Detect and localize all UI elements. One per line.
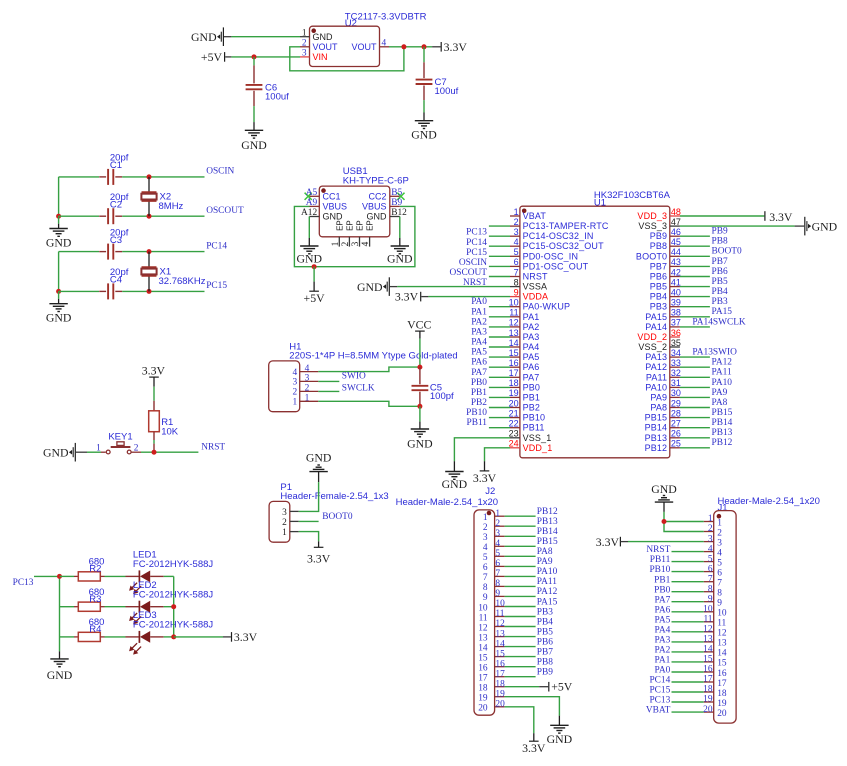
svg-text:PB10: PB10 bbox=[466, 408, 487, 418]
svg-text:34: 34 bbox=[671, 348, 681, 358]
svg-text:PD0-OSC_IN: PD0-OSC_IN bbox=[523, 251, 579, 261]
svg-text:PB13: PB13 bbox=[645, 433, 668, 443]
svg-text:17: 17 bbox=[717, 679, 727, 689]
svg-text:PA5: PA5 bbox=[523, 352, 540, 362]
svg-text:EP: EP bbox=[345, 220, 354, 231]
svg-text:11: 11 bbox=[479, 613, 488, 623]
svg-text:VBAT: VBAT bbox=[523, 211, 547, 221]
svg-text:PB1: PB1 bbox=[523, 392, 540, 402]
svg-text:7: 7 bbox=[514, 267, 519, 277]
svg-text:6: 6 bbox=[483, 563, 488, 573]
svg-text:3: 3 bbox=[717, 538, 722, 548]
svg-text:PA0-WKUP: PA0-WKUP bbox=[523, 302, 571, 312]
svg-text:26: 26 bbox=[671, 429, 681, 439]
svg-text:PB5: PB5 bbox=[712, 277, 728, 287]
svg-text:8MHz: 8MHz bbox=[159, 201, 184, 212]
svg-text:2: 2 bbox=[514, 217, 519, 227]
svg-text:1: 1 bbox=[305, 394, 310, 404]
svg-text:8: 8 bbox=[717, 589, 722, 599]
svg-text:EP: EP bbox=[335, 220, 344, 231]
svg-text:PB4: PB4 bbox=[650, 292, 667, 302]
svg-text:8: 8 bbox=[495, 579, 500, 589]
svg-text:12: 12 bbox=[509, 318, 519, 328]
svg-text:10: 10 bbox=[478, 603, 488, 613]
svg-text:20: 20 bbox=[703, 705, 713, 715]
svg-text:PC14: PC14 bbox=[206, 241, 227, 251]
svg-text:GND: GND bbox=[306, 451, 332, 465]
svg-text:3: 3 bbox=[302, 49, 307, 59]
svg-text:PA7: PA7 bbox=[471, 368, 487, 378]
svg-text:PA12: PA12 bbox=[645, 362, 667, 372]
svg-text:PA2: PA2 bbox=[523, 322, 540, 332]
svg-text:18: 18 bbox=[495, 679, 505, 689]
svg-text:6: 6 bbox=[717, 568, 722, 578]
svg-text:R4: R4 bbox=[89, 624, 101, 635]
svg-text:PB9: PB9 bbox=[712, 227, 728, 237]
svg-text:PB5: PB5 bbox=[650, 282, 667, 292]
svg-text:PA12: PA12 bbox=[537, 587, 558, 597]
svg-text:GND: GND bbox=[46, 236, 72, 250]
svg-text:17: 17 bbox=[495, 669, 505, 679]
svg-text:C4: C4 bbox=[110, 275, 122, 286]
svg-text:R2: R2 bbox=[89, 564, 101, 575]
svg-text:2: 2 bbox=[341, 241, 351, 246]
svg-text:11: 11 bbox=[509, 308, 518, 318]
svg-text:R3: R3 bbox=[89, 594, 101, 605]
svg-text:FC-2012HYK-588J: FC-2012HYK-588J bbox=[133, 559, 214, 570]
svg-text:GND: GND bbox=[191, 30, 217, 44]
svg-text:PC15: PC15 bbox=[206, 281, 227, 291]
svg-text:9: 9 bbox=[483, 593, 488, 603]
svg-text:44: 44 bbox=[671, 247, 681, 257]
svg-text:14: 14 bbox=[703, 645, 713, 655]
svg-text:VDDA: VDDA bbox=[523, 292, 549, 302]
svg-text:PA10: PA10 bbox=[537, 567, 558, 577]
svg-text:10K: 10K bbox=[161, 426, 179, 437]
svg-text:PA9: PA9 bbox=[537, 557, 553, 567]
svg-text:15: 15 bbox=[478, 653, 488, 663]
svg-text:1: 1 bbox=[495, 509, 500, 519]
svg-text:3.3V: 3.3V bbox=[596, 535, 620, 549]
svg-text:28: 28 bbox=[671, 408, 681, 418]
svg-text:6: 6 bbox=[495, 559, 500, 569]
svg-text:3: 3 bbox=[351, 241, 361, 246]
svg-text:Header-Male-2.54_1x20: Header-Male-2.54_1x20 bbox=[396, 497, 498, 508]
svg-text:2: 2 bbox=[302, 39, 307, 49]
svg-text:PA10: PA10 bbox=[712, 378, 733, 388]
svg-text:9: 9 bbox=[708, 594, 713, 604]
svg-text:B5: B5 bbox=[391, 188, 402, 198]
svg-text:8: 8 bbox=[483, 583, 488, 593]
svg-text:31: 31 bbox=[671, 378, 681, 388]
svg-text:4: 4 bbox=[293, 368, 298, 378]
svg-text:GND: GND bbox=[241, 138, 267, 152]
svg-text:8: 8 bbox=[514, 277, 519, 287]
svg-text:EP: EP bbox=[366, 220, 375, 231]
svg-text:29: 29 bbox=[671, 398, 681, 408]
svg-text:PB2: PB2 bbox=[471, 398, 487, 408]
svg-text:VOUT: VOUT bbox=[351, 42, 377, 52]
svg-text:VIN: VIN bbox=[313, 52, 328, 62]
svg-text:3: 3 bbox=[708, 534, 713, 544]
svg-text:PA13SWIO: PA13SWIO bbox=[692, 348, 737, 358]
svg-text:KEY1: KEY1 bbox=[108, 431, 132, 442]
svg-text:19: 19 bbox=[478, 694, 488, 704]
svg-text:14: 14 bbox=[717, 649, 727, 659]
svg-text:GND: GND bbox=[407, 437, 433, 451]
svg-text:PB10: PB10 bbox=[523, 413, 546, 423]
svg-text:+5V: +5V bbox=[304, 291, 326, 305]
svg-text:3: 3 bbox=[483, 533, 488, 543]
svg-text:8: 8 bbox=[708, 584, 713, 594]
svg-text:10: 10 bbox=[509, 298, 519, 308]
svg-text:J2: J2 bbox=[485, 486, 495, 497]
svg-text:PA0: PA0 bbox=[654, 666, 670, 676]
svg-text:PA15: PA15 bbox=[712, 307, 733, 317]
svg-text:PA1: PA1 bbox=[523, 312, 540, 322]
svg-text:9: 9 bbox=[514, 287, 519, 297]
svg-text:TC2117-3.3VDBTR: TC2117-3.3VDBTR bbox=[345, 11, 427, 22]
svg-text:GND: GND bbox=[46, 311, 72, 325]
svg-text:PA7: PA7 bbox=[523, 372, 540, 382]
svg-text:13: 13 bbox=[495, 629, 505, 639]
svg-text:2: 2 bbox=[483, 523, 488, 533]
svg-text:OSCOUT: OSCOUT bbox=[449, 268, 487, 278]
svg-text:PA7: PA7 bbox=[654, 595, 670, 605]
svg-text:PB14: PB14 bbox=[537, 527, 558, 537]
svg-text:PA2: PA2 bbox=[471, 317, 487, 327]
svg-text:PA4: PA4 bbox=[654, 625, 670, 635]
svg-text:PB1: PB1 bbox=[471, 388, 487, 398]
svg-text:VSS_3: VSS_3 bbox=[638, 221, 667, 231]
svg-text:3: 3 bbox=[305, 374, 310, 384]
svg-text:PA3: PA3 bbox=[471, 328, 487, 338]
svg-text:GND: GND bbox=[387, 251, 413, 265]
svg-text:20: 20 bbox=[717, 709, 727, 719]
svg-text:PD1-OSC_OUT: PD1-OSC_OUT bbox=[523, 261, 589, 271]
svg-text:GND: GND bbox=[547, 732, 573, 746]
svg-text:GND: GND bbox=[297, 251, 323, 265]
svg-text:Header-Male-2.54_1x20: Header-Male-2.54_1x20 bbox=[718, 496, 820, 507]
svg-text:18: 18 bbox=[478, 684, 488, 694]
svg-text:PC13: PC13 bbox=[649, 696, 670, 706]
svg-text:41: 41 bbox=[671, 277, 681, 287]
svg-text:PB12: PB12 bbox=[645, 443, 668, 453]
svg-text:PA10: PA10 bbox=[645, 382, 667, 392]
svg-text:3.3V: 3.3V bbox=[522, 741, 546, 755]
svg-text:13: 13 bbox=[509, 328, 519, 338]
svg-text:PB15: PB15 bbox=[712, 408, 733, 418]
svg-text:1: 1 bbox=[708, 514, 713, 524]
svg-text:5: 5 bbox=[495, 549, 500, 559]
svg-text:PA2: PA2 bbox=[654, 646, 670, 656]
svg-text:15: 15 bbox=[717, 659, 727, 669]
svg-text:18: 18 bbox=[703, 685, 713, 695]
svg-text:20: 20 bbox=[509, 398, 519, 408]
svg-text:NRST: NRST bbox=[523, 272, 548, 282]
svg-text:2: 2 bbox=[282, 518, 287, 528]
svg-text:10: 10 bbox=[703, 605, 713, 615]
svg-text:GND: GND bbox=[313, 32, 334, 42]
svg-text:47: 47 bbox=[671, 217, 681, 227]
svg-text:PB13: PB13 bbox=[537, 517, 558, 527]
svg-text:16: 16 bbox=[495, 659, 505, 669]
svg-text:PA5: PA5 bbox=[654, 615, 670, 625]
svg-text:PA9: PA9 bbox=[650, 392, 667, 402]
svg-text:2: 2 bbox=[293, 388, 298, 398]
svg-text:100uf: 100uf bbox=[265, 92, 289, 103]
svg-text:15: 15 bbox=[509, 348, 519, 358]
svg-text:PB2: PB2 bbox=[523, 403, 540, 413]
svg-text:PB8: PB8 bbox=[712, 237, 728, 247]
svg-text:17: 17 bbox=[703, 675, 713, 685]
svg-text:4: 4 bbox=[495, 539, 500, 549]
svg-text:PB12: PB12 bbox=[537, 507, 558, 517]
svg-text:PB0: PB0 bbox=[523, 382, 540, 392]
svg-text:37: 37 bbox=[671, 318, 681, 328]
svg-text:4: 4 bbox=[305, 364, 310, 374]
svg-text:2: 2 bbox=[305, 384, 310, 394]
svg-text:45: 45 bbox=[671, 237, 681, 247]
svg-text:SWIO: SWIO bbox=[342, 372, 366, 382]
svg-text:18: 18 bbox=[717, 689, 727, 699]
svg-text:32: 32 bbox=[671, 368, 681, 378]
svg-text:3: 3 bbox=[514, 227, 519, 237]
svg-text:19: 19 bbox=[509, 388, 519, 398]
svg-text:17: 17 bbox=[509, 368, 519, 378]
svg-text:PB8: PB8 bbox=[650, 241, 667, 251]
svg-text:1: 1 bbox=[96, 444, 101, 454]
svg-text:25: 25 bbox=[671, 439, 681, 449]
svg-text:1: 1 bbox=[717, 518, 722, 528]
svg-text:1: 1 bbox=[282, 528, 287, 538]
svg-text:PA4: PA4 bbox=[471, 338, 487, 348]
svg-text:5: 5 bbox=[483, 553, 488, 563]
svg-text:PA8: PA8 bbox=[537, 547, 553, 557]
svg-text:VDD_1: VDD_1 bbox=[523, 443, 553, 453]
svg-text:15: 15 bbox=[495, 649, 505, 659]
svg-text:100pf: 100pf bbox=[430, 391, 454, 402]
svg-text:1: 1 bbox=[514, 207, 519, 217]
svg-text:PC13: PC13 bbox=[466, 228, 487, 238]
svg-text:+5V: +5V bbox=[551, 680, 573, 694]
svg-text:PC14: PC14 bbox=[466, 238, 487, 248]
svg-text:PA15: PA15 bbox=[537, 597, 558, 607]
svg-text:PB11: PB11 bbox=[650, 555, 671, 565]
svg-text:BOOT0: BOOT0 bbox=[712, 247, 743, 257]
svg-text:14: 14 bbox=[495, 639, 505, 649]
svg-text:15: 15 bbox=[703, 655, 713, 665]
svg-text:5: 5 bbox=[514, 247, 519, 257]
svg-text:2: 2 bbox=[495, 519, 500, 529]
svg-text:PB0: PB0 bbox=[471, 378, 487, 388]
svg-text:VBAT: VBAT bbox=[646, 706, 671, 716]
svg-text:OSCOUT: OSCOUT bbox=[206, 206, 244, 216]
svg-text:14: 14 bbox=[509, 338, 519, 348]
svg-text:PC15-OSC32_OUT: PC15-OSC32_OUT bbox=[523, 241, 604, 251]
svg-text:PC15: PC15 bbox=[649, 686, 670, 696]
svg-text:10: 10 bbox=[495, 599, 505, 609]
svg-text:21: 21 bbox=[509, 408, 519, 418]
svg-text:PC14-OSC32_IN: PC14-OSC32_IN bbox=[523, 231, 594, 241]
svg-text:PB13: PB13 bbox=[712, 428, 733, 438]
svg-text:VSS_2: VSS_2 bbox=[638, 342, 667, 352]
svg-text:SWCLK: SWCLK bbox=[342, 383, 375, 393]
svg-text:PA6: PA6 bbox=[523, 362, 540, 372]
svg-text:PB9: PB9 bbox=[650, 231, 667, 241]
svg-text:7: 7 bbox=[483, 573, 488, 583]
svg-text:VOUT: VOUT bbox=[313, 42, 339, 52]
svg-text:16: 16 bbox=[478, 664, 488, 674]
svg-text:GND: GND bbox=[442, 477, 468, 491]
svg-text:12: 12 bbox=[703, 625, 713, 635]
svg-text:3.3V: 3.3V bbox=[234, 630, 258, 644]
svg-text:1: 1 bbox=[302, 29, 307, 39]
svg-text:16: 16 bbox=[717, 669, 727, 679]
svg-text:5: 5 bbox=[708, 554, 713, 564]
svg-text:3.3V: 3.3V bbox=[769, 210, 793, 224]
svg-text:19: 19 bbox=[703, 695, 713, 705]
svg-text:CC2: CC2 bbox=[368, 191, 386, 201]
svg-text:VSS_1: VSS_1 bbox=[523, 433, 552, 443]
svg-text:PB11: PB11 bbox=[467, 418, 488, 428]
svg-text:16: 16 bbox=[509, 358, 519, 368]
svg-text:PA0: PA0 bbox=[471, 297, 487, 307]
svg-text:PB12: PB12 bbox=[712, 438, 733, 448]
svg-text:C3: C3 bbox=[110, 235, 122, 246]
svg-text:Header-Female-2.54_1x3: Header-Female-2.54_1x3 bbox=[280, 491, 388, 502]
svg-text:PA8: PA8 bbox=[650, 403, 667, 413]
svg-text:GND: GND bbox=[357, 280, 383, 294]
svg-text:PB10: PB10 bbox=[649, 565, 670, 575]
svg-text:PA15: PA15 bbox=[645, 312, 667, 322]
svg-text:PB7: PB7 bbox=[712, 257, 728, 267]
svg-text:C2: C2 bbox=[110, 200, 122, 211]
svg-text:3.3V: 3.3V bbox=[473, 471, 497, 485]
svg-text:12: 12 bbox=[495, 619, 505, 629]
svg-text:3.3V: 3.3V bbox=[307, 551, 331, 565]
svg-text:PA11: PA11 bbox=[712, 368, 732, 378]
svg-text:7: 7 bbox=[708, 574, 713, 584]
svg-text:GND: GND bbox=[43, 445, 69, 459]
svg-text:30: 30 bbox=[671, 388, 681, 398]
svg-text:PA11: PA11 bbox=[537, 577, 557, 587]
svg-text:11: 11 bbox=[703, 615, 712, 625]
svg-text:PB4: PB4 bbox=[712, 287, 728, 297]
svg-text:PB1: PB1 bbox=[654, 575, 670, 585]
svg-text:16: 16 bbox=[703, 665, 713, 675]
svg-text:14: 14 bbox=[478, 643, 488, 653]
svg-text:PA3: PA3 bbox=[654, 636, 670, 646]
svg-text:12: 12 bbox=[478, 623, 488, 633]
svg-text:3.3V: 3.3V bbox=[395, 290, 419, 304]
svg-text:18: 18 bbox=[509, 378, 519, 388]
svg-text:PA1: PA1 bbox=[471, 307, 487, 317]
svg-text:40: 40 bbox=[671, 287, 681, 297]
svg-text:VCC: VCC bbox=[407, 317, 431, 331]
svg-text:CC1: CC1 bbox=[323, 191, 341, 201]
svg-text:PA14: PA14 bbox=[645, 322, 667, 332]
svg-text:VBUS: VBUS bbox=[362, 202, 387, 212]
svg-text:38: 38 bbox=[671, 308, 681, 318]
svg-text:PA8: PA8 bbox=[712, 398, 728, 408]
svg-text:42: 42 bbox=[671, 267, 681, 277]
svg-text:GND: GND bbox=[367, 212, 388, 222]
svg-text:22: 22 bbox=[509, 419, 519, 429]
svg-text:PA1: PA1 bbox=[654, 656, 670, 666]
svg-text:C1: C1 bbox=[110, 160, 122, 171]
svg-text:PB0: PB0 bbox=[654, 585, 670, 595]
svg-text:VBUS: VBUS bbox=[323, 202, 348, 212]
svg-text:3.3V: 3.3V bbox=[444, 40, 468, 54]
svg-text:+5V: +5V bbox=[201, 50, 223, 64]
svg-text:100uf: 100uf bbox=[435, 86, 459, 97]
svg-text:PA4: PA4 bbox=[523, 342, 540, 352]
svg-text:PA5: PA5 bbox=[471, 348, 487, 358]
svg-text:27: 27 bbox=[671, 419, 681, 429]
svg-text:PA13: PA13 bbox=[645, 352, 667, 362]
svg-text:GND: GND bbox=[47, 668, 73, 682]
svg-text:PB5: PB5 bbox=[537, 627, 553, 637]
svg-text:PB6: PB6 bbox=[650, 272, 667, 282]
svg-text:PB8: PB8 bbox=[537, 658, 553, 668]
svg-text:13: 13 bbox=[478, 633, 488, 643]
svg-text:VDD_2: VDD_2 bbox=[637, 332, 667, 342]
svg-text:PB9: PB9 bbox=[537, 668, 553, 678]
svg-text:24: 24 bbox=[509, 439, 519, 449]
svg-text:PA11: PA11 bbox=[646, 372, 667, 382]
svg-text:PB6: PB6 bbox=[712, 267, 728, 277]
svg-text:220S-1*4P H=8.5MM Ytype Gold-p: 220S-1*4P H=8.5MM Ytype Gold-plated bbox=[289, 351, 457, 362]
svg-text:PB3: PB3 bbox=[537, 607, 553, 617]
svg-text:12: 12 bbox=[717, 629, 727, 639]
svg-text:1: 1 bbox=[483, 513, 488, 523]
svg-text:BOOT0: BOOT0 bbox=[636, 251, 667, 261]
svg-text:PB7: PB7 bbox=[537, 647, 553, 657]
svg-text:11: 11 bbox=[495, 609, 504, 619]
svg-text:PB3: PB3 bbox=[712, 297, 728, 307]
svg-text:KH-TYPE-C-6P: KH-TYPE-C-6P bbox=[343, 176, 409, 187]
svg-text:35: 35 bbox=[671, 338, 681, 348]
svg-text:11: 11 bbox=[717, 619, 726, 629]
svg-text:PA6: PA6 bbox=[471, 358, 487, 368]
svg-text:PB7: PB7 bbox=[650, 261, 667, 271]
svg-text:20: 20 bbox=[495, 700, 505, 710]
svg-text:PB15: PB15 bbox=[537, 537, 558, 547]
svg-text:6: 6 bbox=[514, 257, 519, 267]
svg-text:3: 3 bbox=[293, 378, 298, 388]
svg-text:4: 4 bbox=[483, 543, 488, 553]
svg-text:PA12: PA12 bbox=[712, 358, 733, 368]
svg-text:5: 5 bbox=[717, 558, 722, 568]
svg-text:3: 3 bbox=[282, 508, 287, 518]
svg-text:PA9: PA9 bbox=[712, 388, 728, 398]
svg-text:EP: EP bbox=[356, 220, 365, 231]
svg-text:1: 1 bbox=[331, 241, 341, 246]
svg-text:PA14SWCLK: PA14SWCLK bbox=[692, 317, 746, 327]
svg-text:VSSA: VSSA bbox=[523, 282, 548, 292]
svg-text:43: 43 bbox=[671, 257, 681, 267]
svg-text:20: 20 bbox=[478, 704, 488, 714]
svg-text:6: 6 bbox=[708, 564, 713, 574]
svg-text:19: 19 bbox=[495, 689, 505, 699]
svg-text:A5: A5 bbox=[306, 188, 318, 198]
svg-text:GND: GND bbox=[812, 219, 838, 233]
svg-text:46: 46 bbox=[671, 227, 681, 237]
svg-text:PC13: PC13 bbox=[13, 578, 34, 588]
svg-text:PB11: PB11 bbox=[523, 423, 545, 433]
svg-text:PC14: PC14 bbox=[649, 676, 670, 686]
